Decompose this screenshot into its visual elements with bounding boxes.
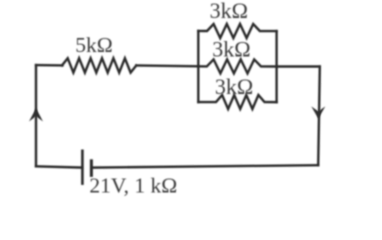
battery long plate [81,151,84,184]
current arrow left (up) [29,108,43,121]
resistor 3kΩ top branch [198,24,276,38]
wire top-left horizontal [36,64,63,67]
svg-text:3kΩ: 3kΩ [212,37,250,62]
svg-text:21V, 1 kΩ: 21V, 1 kΩ [89,174,177,198]
wire right vertical [318,67,320,166]
svg-text:3kΩ: 3kΩ [215,74,253,99]
battery short plate [90,161,93,176]
resistor 3kΩ bottom branch [198,95,276,109]
resistor 3kΩ middle branch [198,59,276,73]
svg-text:5kΩ: 5kΩ [75,33,112,57]
svg-text:3kΩ: 3kΩ [210,0,248,23]
wire bottom left (corner to battery) [36,166,82,167]
wire left vertical [35,65,37,166]
wire parallel block to right corner [277,65,320,67]
wire parallel block left vertical [197,31,199,102]
wire resistor to parallel block [136,64,198,67]
resistor 5kΩ [62,58,136,72]
wire parallel block right vertical [275,31,277,102]
current arrow right (down) [311,106,325,118]
wire bottom right (battery to right corner) [91,165,318,167]
